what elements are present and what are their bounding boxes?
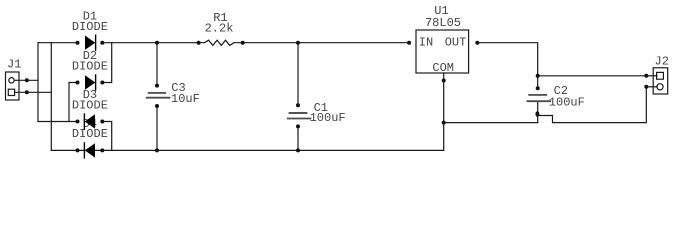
diode D4 (points left, in bottom rail)	[72, 117, 108, 159]
wire U1 OUT right then down to +5V node	[477, 43, 537, 76]
wire C1 top lead from top rail	[297, 43, 299, 106]
capacitor C1	[287, 41, 346, 153]
capacitor C2	[527, 74, 585, 117]
svg-text:OUT: OUT	[445, 35, 467, 49]
wire J1 pin 1 to node AC1	[15, 79, 38, 81]
svg-text:100uF: 100uF	[310, 111, 346, 125]
wire vertical node AC2: top rail tee down to J1 pin 2 to bottom rail corner	[50, 43, 52, 151]
svg-text:2.2k: 2.2k	[205, 22, 234, 36]
connector J1	[6, 58, 29, 100]
svg-text:J2: J2	[655, 54, 669, 68]
wire C2 bottom jog right to J2 ground riser	[538, 87, 647, 123]
diode D3 (points left)	[72, 88, 108, 130]
wire D2 cathode right then up to top rail	[102, 43, 111, 83]
svg-text:10uF: 10uF	[171, 92, 200, 106]
wire D2 anode left then down to D3 row	[69, 83, 78, 122]
wire COM net horizontal to C2 column	[444, 122, 538, 124]
svg-text:DIODE: DIODE	[72, 127, 108, 141]
svg-text:J1: J1	[7, 58, 21, 72]
wire D3 anode right then down to bottom rail	[102, 122, 111, 151]
wire bottom ground rail	[51, 149, 443, 151]
connector J2	[644, 54, 669, 94]
svg-text:DIODE: DIODE	[72, 20, 108, 34]
wire C2 top lead from +5V node	[537, 76, 539, 88]
wire J2 pin 1 stub into connector	[646, 75, 657, 77]
wire top rail AC1 node to D1 anode	[38, 42, 78, 44]
svg-text:DIODE: DIODE	[72, 59, 108, 73]
diode D2	[72, 49, 108, 91]
wire top rail D1 cathode to R1 left pin	[102, 42, 204, 44]
wire C3 top lead from top rail	[156, 43, 158, 86]
wire vertical node AC1: top rail to J1 pin 1 to D3 cathode row	[37, 43, 39, 122]
svg-text:IN: IN	[419, 35, 433, 49]
junction node COM net	[442, 121, 446, 125]
capacitor C3	[146, 41, 200, 153]
wire U1 COM pin down to bottom ground rail	[443, 73, 445, 150]
wire J2 pin 2 stub into connector	[646, 86, 657, 88]
svg-text:DIODE: DIODE	[72, 98, 108, 112]
regulator U1	[407, 4, 479, 82]
svg-text:100uF: 100uF	[549, 95, 585, 109]
wire C3 bottom lead to ground rail	[156, 106, 158, 150]
wire top rail R1 right pin to U1 IN pin	[234, 42, 409, 44]
wire D3 row from node AC1 to D3 cathode	[38, 121, 78, 123]
svg-text:COM: COM	[432, 61, 454, 75]
svg-text:78L05: 78L05	[425, 16, 461, 30]
wire +5V node to J2 pin 1	[538, 75, 647, 77]
wire C2 bottom lead down to COM net	[537, 101, 539, 122]
wire J1 pin 2 to node AC2	[15, 91, 51, 93]
diode D1	[72, 10, 108, 51]
wire C1 bottom lead to ground rail	[297, 126, 299, 150]
resistor R1	[197, 11, 245, 45]
